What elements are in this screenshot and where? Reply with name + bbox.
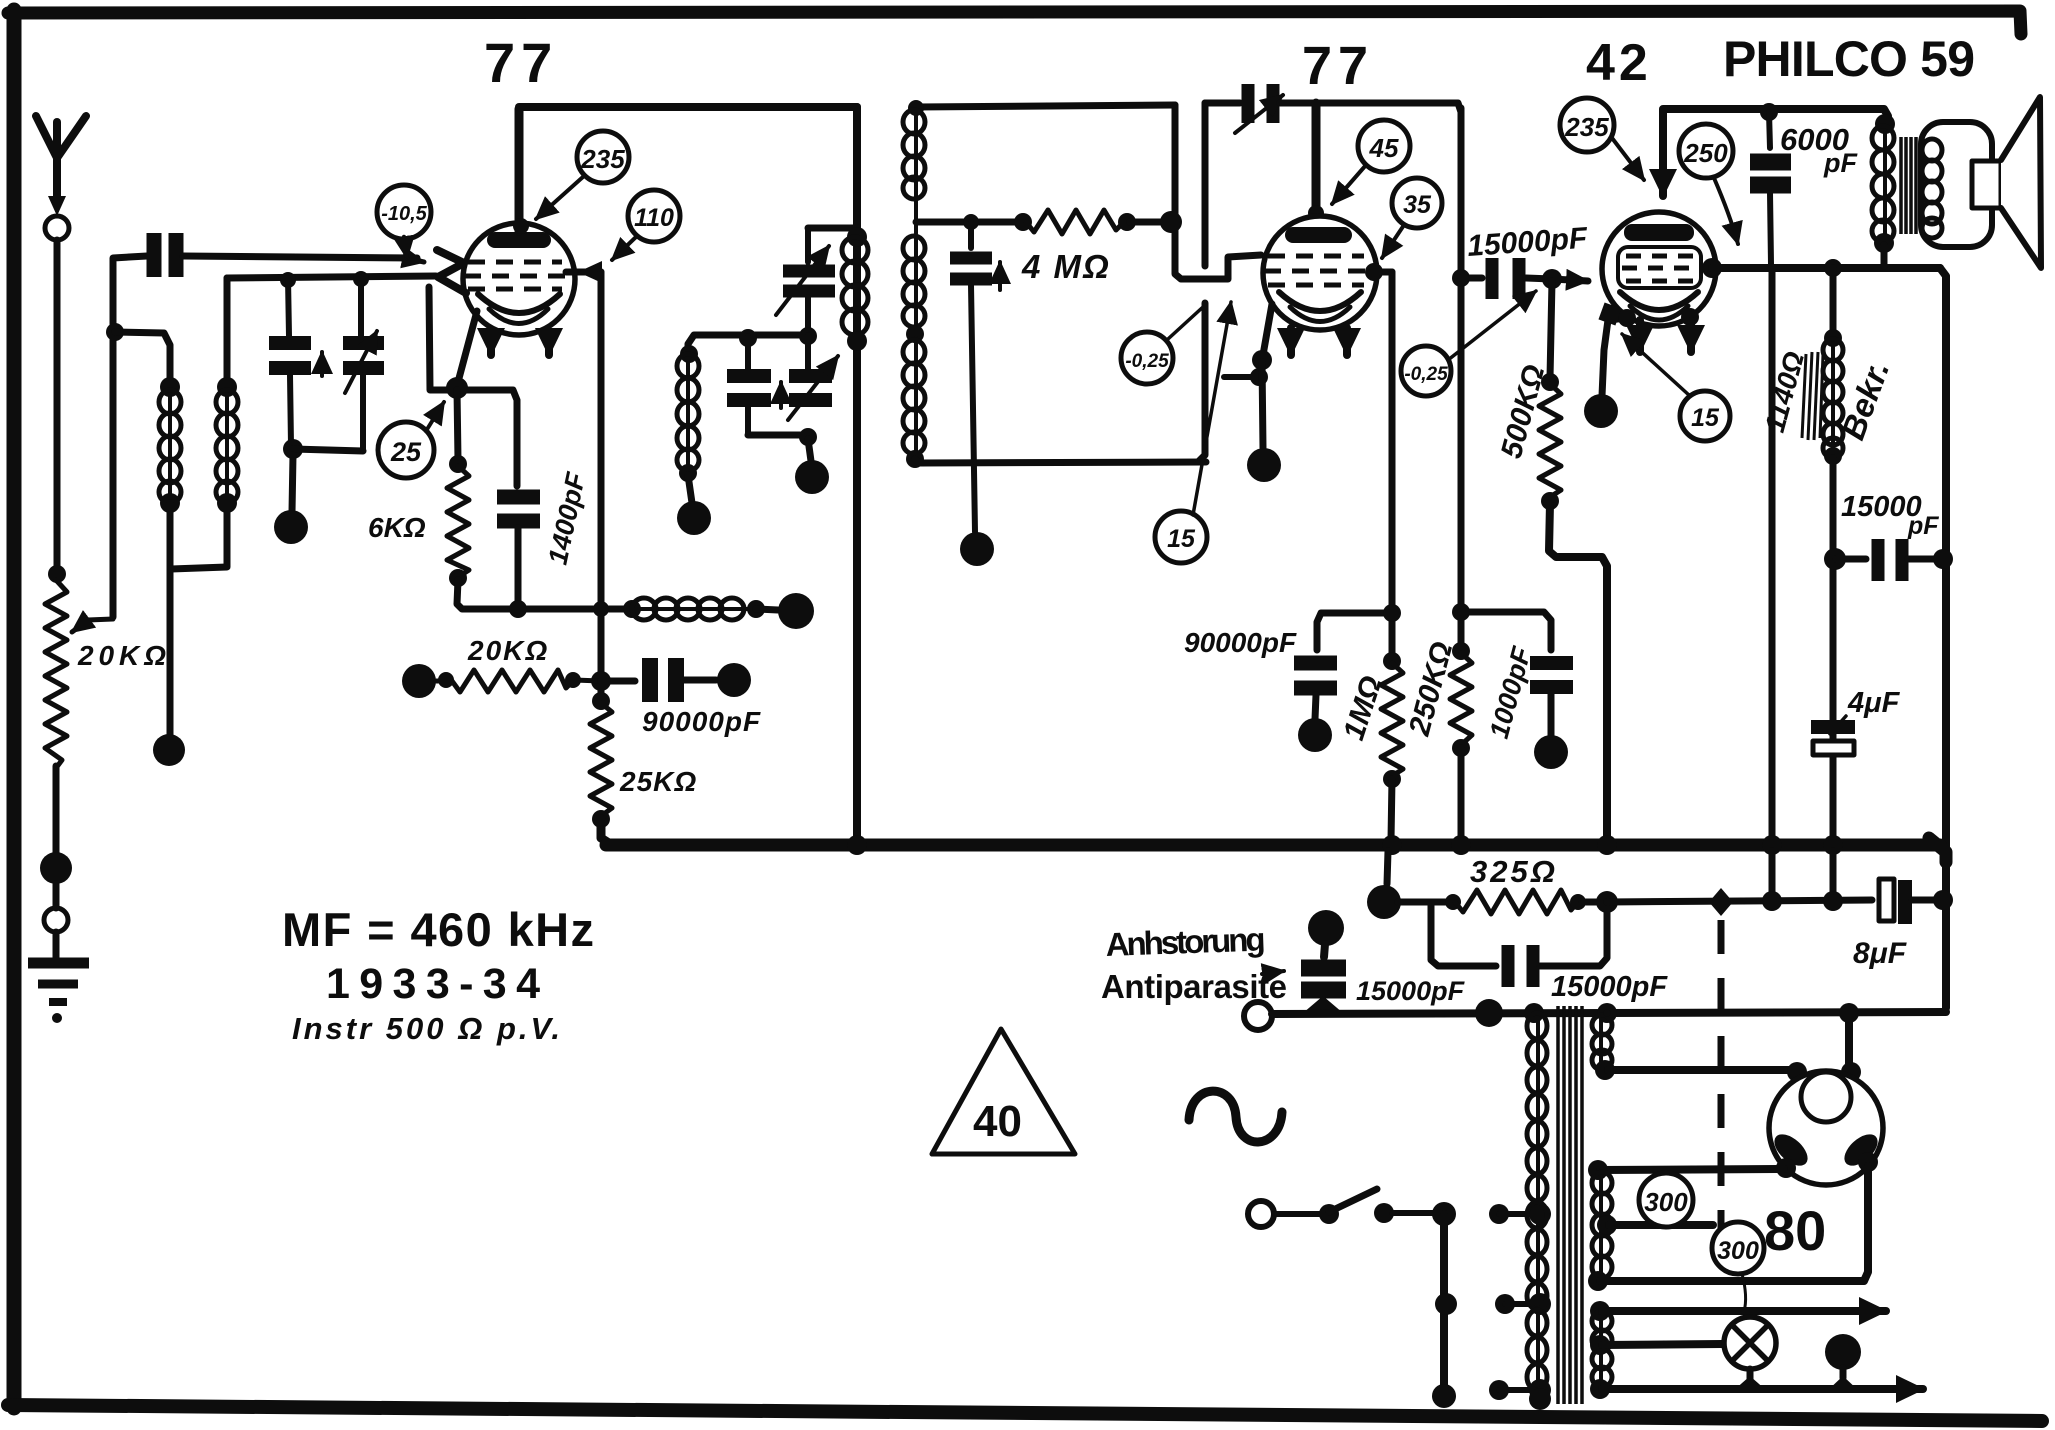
node winding tap mid (1529, 1293, 1551, 1315)
circled 300 first (1639, 1173, 1693, 1227)
capacitor C10 top cap coupling (1248, 84, 1273, 123)
svg-text:4 MΩ: 4 MΩ (1021, 248, 1111, 285)
tube V4 anode right (1839, 1128, 1883, 1171)
wire cathode to blob (1262, 362, 1263, 448)
node C11 left junction (1452, 269, 1470, 287)
wire filament top to tube80 (1600, 1169, 1784, 1170)
bus main B- line (606, 839, 1940, 852)
svg-text:15: 15 (1167, 525, 1196, 553)
wire 4M to grid loop vertical (1130, 219, 1168, 226)
node switch contact (1374, 1203, 1394, 1223)
node tap rail mid (1435, 1293, 1457, 1315)
heater arrow V2 left (1287, 328, 1295, 355)
node R9 right dot (1570, 894, 1586, 910)
tube V3 screen box (1618, 247, 1701, 288)
node junction x1172 (1160, 211, 1182, 233)
AC sine symbol (1189, 1091, 1282, 1142)
wire top cap feed y103 (1205, 100, 1240, 107)
pointer -0,25 to grid loop (1168, 307, 1203, 339)
wire Bekr top stem (1830, 268, 1837, 334)
wire V1 plate lead top (515, 109, 524, 231)
capacitor C18 15000pF (1508, 945, 1533, 987)
node 1M top (1383, 652, 1401, 670)
node C2 bottom junction (283, 439, 303, 459)
wire C6 top stem (805, 228, 811, 262)
capacitor C13 1000pF (1530, 663, 1573, 687)
node blob below C13 (1534, 735, 1568, 769)
wire x1772 rail (250V) (1769, 268, 1776, 840)
wire switch to tap rail (1392, 1210, 1440, 1216)
svg-text:8μF: 8μF (1853, 937, 1907, 970)
wire 20K junction to C5 (601, 678, 635, 685)
wire C7-C8 bottom link (748, 432, 808, 439)
wire vertical x1461 from top (1458, 108, 1465, 648)
tap stub mid (1495, 1294, 1536, 1314)
wire C3 bottom stem (360, 375, 366, 451)
heater arrow V1 right (545, 332, 553, 355)
capacitor C9 IFT2 fixed (950, 258, 992, 279)
inductor L13 HV winding top (1592, 1015, 1612, 1070)
node C19 rail junction (1933, 890, 1953, 910)
circled 25 (378, 422, 434, 478)
tube V3 anode (1624, 224, 1694, 241)
wire 1000pF link y612 (1461, 612, 1551, 650)
wire right rail top corner (1940, 268, 1946, 1008)
node 6K top (449, 455, 467, 473)
node blob below C12 (1298, 718, 1332, 752)
node V2 cathode junction (1252, 350, 1272, 370)
svg-text:-10,5: -10,5 (381, 203, 427, 225)
node winding tap top (1529, 1203, 1551, 1225)
wire pot tap with arrow (72, 619, 113, 632)
border frame top (8, 11, 2021, 34)
node tube80 pin top-right (1841, 1062, 1861, 1082)
heater arrow V2 right (1343, 328, 1351, 355)
svg-text:90000pF: 90000pF (642, 706, 761, 737)
arrow 235 second to plate (1612, 138, 1644, 180)
tube V2 cathode arcs (1279, 292, 1361, 311)
border frame left (7, 10, 22, 1408)
junction diamond on dashed rail (1709, 888, 1733, 916)
svg-text:15: 15 (1691, 404, 1720, 432)
arrow trimmer mark C2 (320, 352, 324, 376)
inductor L15 heater winding (1592, 1311, 1612, 1387)
triangle service mark 40 (932, 1029, 1075, 1154)
node V3 heater pin right (1681, 308, 1699, 326)
node HV winding top (1597, 1003, 1617, 1023)
node blob below L5 (677, 501, 711, 535)
wire stub x1772 to y902 (1769, 851, 1776, 898)
resistor R7 250K (1450, 653, 1472, 745)
wire C3 stem top (358, 277, 364, 336)
tube V1 envelope (463, 223, 575, 335)
node tap rail bottom (1432, 1384, 1456, 1408)
node 4M right dot (1118, 213, 1136, 231)
capacitor C12 90000pF (1294, 663, 1337, 688)
wire grid return y462 (915, 459, 1206, 463)
node blob 325 line left (1367, 885, 1401, 919)
cathode bracket blob mark (1598, 302, 1621, 325)
pointer from 300 second (1742, 1274, 1746, 1312)
arrow trimmer mark C9 (998, 262, 1002, 290)
arrow variable mark C10 (1235, 95, 1283, 133)
node C8 bottom junction (799, 428, 817, 446)
node 25K bottom (592, 810, 610, 828)
node junction on antenna lead (106, 323, 124, 341)
circled -0,25 second (1401, 346, 1451, 396)
tube V3 cathode arcs (1620, 292, 1698, 310)
wire y902 line to 8uF (1607, 900, 1872, 902)
node speaker transformer top (1875, 114, 1895, 134)
arrow -10,5 to grid (404, 237, 407, 258)
capacitor C17 antiparasitic (1301, 968, 1346, 990)
wire heater line mid to lamp (1602, 1344, 1722, 1345)
circled 15 second (1680, 391, 1730, 441)
svg-text:6KΩ: 6KΩ (368, 512, 426, 543)
terminal circle mains line (1244, 1002, 1272, 1030)
capacitor C19 8uF (1879, 879, 1905, 924)
node 20K junction on x601 (591, 671, 611, 691)
wire C9 stem bottom long (971, 285, 975, 532)
wire 25K to bus corner (601, 819, 612, 845)
node R3 right dot (565, 672, 581, 688)
svg-text:15000pF: 15000pF (1356, 976, 1466, 1006)
wire C4 bottom stem (515, 528, 522, 606)
node 1M bottom (1383, 770, 1401, 788)
node 4M left dot (1014, 213, 1032, 231)
resistor R9 325 ohm (1455, 890, 1578, 914)
pilot terminal dot (1825, 1334, 1861, 1391)
wire V1 screen stub right (566, 269, 601, 276)
wire secondary bottom to blob (688, 475, 692, 503)
wire 250K to bus (1458, 748, 1465, 840)
svg-text:25: 25 (390, 437, 422, 467)
svg-text:90000pF: 90000pF (1184, 627, 1297, 658)
circled 45 (1358, 120, 1410, 172)
wire cathode junction left and up to grid X (429, 287, 457, 390)
tube V3 envelope (1602, 212, 1716, 326)
wire C2 stem (288, 278, 289, 336)
wire pot to ground blob (53, 766, 60, 856)
arrow variable mark C3 (345, 331, 377, 393)
inductor L8 IFT2 coil 3 (903, 338, 925, 455)
wire IFT1 top cap link y228 (808, 225, 857, 232)
node 500K top (1541, 373, 1559, 391)
node tube80 pin bottom-right (1858, 1152, 1878, 1172)
node bus junction x1392 (1382, 835, 1402, 855)
heater arrow V1 left (487, 332, 495, 355)
speaker cone (2001, 97, 2041, 268)
circled 15 first (1155, 511, 1207, 563)
node filament winding top (1588, 1160, 1608, 1180)
node IFT2 coil2 bottom (906, 325, 924, 343)
node bus junction x1772 (1762, 835, 1782, 855)
node Bekr coil top (1824, 329, 1842, 347)
resistor R8 500K (1539, 384, 1561, 497)
svg-text:20KΩ: 20KΩ (77, 640, 166, 671)
wire C13 bottom stem (1548, 694, 1555, 736)
wire C12 bottom stem (1315, 695, 1316, 719)
inductor L10 Bekr field coil (1823, 339, 1843, 458)
circled 235 (577, 131, 629, 183)
tube V3 grid dashes (1622, 256, 1736, 281)
arrow 250 to plate line (1714, 178, 1738, 244)
tube V4 anode left (1769, 1128, 1813, 1171)
capacitor C11 15000pF (1492, 258, 1519, 299)
arrow screen stub into tube (580, 270, 594, 275)
node C2 stem junction (280, 272, 296, 288)
wire R9 to junction x1607 (1582, 899, 1607, 906)
capacitor C4 1400pF (497, 497, 540, 521)
wire mains line y1013 (1272, 1012, 1946, 1014)
svg-text:110: 110 (634, 204, 674, 232)
node bus junction x1607 (1597, 835, 1617, 855)
wire stub bus to 325 blob (1387, 851, 1388, 884)
svg-text:20KΩ: 20KΩ (467, 635, 549, 666)
tube V2 envelope (1263, 216, 1377, 330)
wire C5 right lead (684, 677, 716, 684)
inductor L2 coupling coil (216, 390, 238, 503)
arrow 110 to screen node (612, 236, 637, 260)
node switch pivot (1319, 1204, 1339, 1224)
arrow 15 second to cathode (1622, 334, 1690, 396)
capacitor C16 4uF (1811, 727, 1855, 755)
wire V2 screen stub right (1375, 269, 1392, 276)
node bus junction x1461 (1451, 835, 1471, 855)
capacitor C2 tuning fixed (269, 343, 311, 368)
node tap rail top (1432, 1202, 1456, 1226)
node C7 top junction (739, 329, 757, 347)
capacitor C3 variable (343, 343, 384, 368)
node ground blob (40, 852, 72, 884)
node C15 right rail junction (1933, 549, 1953, 569)
wire 6000pF bottom stem (1770, 193, 1771, 264)
wire C10 to V2 plate line y103 (1280, 103, 1461, 112)
inductor L9 output transformer primary (1872, 126, 1894, 242)
svg-text:40: 40 (973, 1097, 1022, 1146)
svg-text:42: 42 (1586, 34, 1652, 92)
label 15000 pF (C15) (1841, 491, 1939, 540)
node 250K junction y612 (1452, 603, 1470, 621)
arrow 15 to cathode bracket (1193, 302, 1231, 515)
circled 110 (628, 190, 680, 242)
capacitor C1 antenna coupling (154, 233, 176, 277)
wire HV mid to tube80 plate left (1608, 1066, 1793, 1074)
node y1013 blob x1489 (1475, 999, 1503, 1027)
node IFT1 secondary bottom (679, 464, 697, 482)
grid cap X mark (437, 250, 466, 293)
resistor R3 20K (436, 670, 601, 692)
node tube80 pin top-left (1787, 1062, 1807, 1082)
dial lamp (1724, 1317, 1776, 1369)
node L1 bottom (160, 493, 180, 513)
svg-text:325Ω: 325Ω (1470, 854, 1558, 889)
wire V3 plate lead with arrow (1659, 112, 1667, 196)
wire junction to coil L1 top (115, 332, 170, 385)
node LV winding mid (1590, 1335, 1610, 1355)
tube V1 cathode arcs (478, 294, 560, 313)
circled 235 second (1560, 98, 1614, 152)
node 6K bottom (449, 569, 467, 587)
wire mid tap to 300 circle (1609, 1221, 1713, 1229)
wire blob to ground (53, 884, 60, 958)
wire C8 junction to blob (808, 439, 811, 461)
node junction C4/screen line (509, 600, 527, 618)
wire 6000pF top stem (1769, 112, 1770, 148)
grid bracket V2 lower (1224, 374, 1258, 380)
wire 6K bottom to screen line (457, 580, 627, 609)
inductor L9b output secondary (1922, 139, 1942, 238)
resistor R6 1M (1381, 663, 1403, 776)
inductor L14 rectifier filament winding (1592, 1172, 1612, 1278)
wire C8 stem top (805, 335, 811, 370)
tap stub bottom (1489, 1380, 1534, 1400)
node HV winding mid (1595, 1060, 1615, 1080)
switch blade (1329, 1189, 1377, 1212)
output transformer core (1901, 137, 1916, 234)
wire 90000pF No2 link (1317, 613, 1390, 650)
node R9 left dot (1445, 894, 1461, 910)
tube V1 anode (487, 232, 551, 248)
dashed rail B+ (1718, 920, 1725, 1235)
svg-text:MF = 460 kHz: MF = 460 kHz (282, 903, 594, 956)
wire IFT2 top line y105 (916, 105, 1175, 107)
wire C18 loop below R9 (1431, 902, 1496, 966)
node y902 x1772 (1762, 891, 1782, 911)
wire 4M line y222 (916, 219, 1023, 226)
node transformer primary top (1524, 1003, 1544, 1023)
node LV winding bottom (1590, 1379, 1610, 1399)
node Bekr coil bottom (1824, 447, 1842, 465)
node 500K bottom (1541, 492, 1559, 510)
wire tap rail vertical (1440, 1214, 1448, 1396)
antenna (36, 116, 86, 240)
node 250K top (1452, 642, 1470, 660)
node 250K bottom (1452, 739, 1470, 757)
wire Bekr bottom down (1830, 458, 1837, 840)
node Bekr top junction (1824, 259, 1842, 277)
tube V2 grid dashes (1264, 256, 1370, 285)
node L1 top (160, 377, 180, 397)
svg-text:235: 235 (1564, 112, 1609, 142)
node L3 right (747, 600, 765, 618)
speaker magnet box (1972, 161, 2001, 208)
wire 1M to bus (1391, 779, 1392, 840)
inductor L4 IFT1 primary (842, 237, 868, 335)
node y1013 x1849 junction (1839, 1003, 1859, 1023)
power transformer core (1558, 1006, 1582, 1404)
svg-text:300: 300 (1644, 1187, 1688, 1217)
svg-text:45: 45 (1369, 133, 1399, 163)
node blob above C17 (1308, 910, 1344, 946)
wire L3 to blob (756, 609, 778, 610)
svg-text:35: 35 (1403, 191, 1432, 219)
circled -0,25 first (1121, 332, 1173, 384)
heater arrow V3 left (1636, 320, 1644, 352)
node blob below C8 (795, 460, 829, 494)
arrow grid wire end (405, 258, 424, 262)
wire 6K top from junction (457, 390, 458, 460)
wire H1 plate line to IFT1 (519, 103, 857, 111)
capacitor C14 6000pF (1750, 162, 1791, 185)
node IFT1 secondary top (680, 345, 698, 363)
border frame bottom (8, 1405, 2042, 1421)
wire cathode junction right to C4 (457, 390, 517, 486)
arrow trimmer mark C7 (779, 382, 783, 408)
wire 500K top stem (1550, 281, 1552, 378)
node V1 plate cap (513, 218, 529, 234)
wire C18 right lead (1540, 908, 1607, 966)
wire y1013 drop to tube80 pin top-right (1845, 1012, 1853, 1068)
svg-text:77: 77 (484, 31, 558, 94)
wire switch left (1275, 1211, 1322, 1217)
wire V2 cathode lead (1263, 304, 1272, 355)
capacitor C6 IFT1 trimmer (783, 271, 835, 291)
resistor R2 6K (447, 466, 469, 577)
node 15000pF right junction (1824, 548, 1846, 570)
svg-text:235: 235 (580, 144, 625, 174)
svg-text:Anhstorung: Anhstorung (1105, 920, 1266, 963)
node y902 x1833 (1823, 891, 1843, 911)
node x1392 90000pF junction (1383, 604, 1401, 622)
wire cathode lead V1 (458, 311, 477, 382)
inductor L3 screen choke (632, 598, 748, 620)
svg-text:77: 77 (1302, 36, 1374, 96)
node tube80 pin bottom-left (1776, 1158, 1796, 1178)
node 6000pF top junction (1760, 103, 1778, 121)
svg-text:PHILCO 59: PHILCO 59 (1723, 31, 1975, 87)
wire grid loop vertical x1175 (1175, 105, 1261, 279)
node IFT1 primary bottom (847, 331, 867, 351)
wire C7 stem bottom (745, 407, 751, 435)
wire heater line 1 with arrow (1602, 1307, 1886, 1315)
wire second RF line corner (224, 278, 231, 383)
node antenna/pot junction (48, 565, 66, 583)
node R3 left dot (438, 672, 454, 688)
wire antenna lead down (54, 240, 61, 578)
wire C15 left lead (1836, 556, 1866, 563)
terminal ring (44, 908, 68, 932)
node V2 screen dot (1365, 263, 1383, 281)
ground (28, 963, 89, 1023)
wire C1 to grid of V1 (183, 256, 417, 258)
node bus right corner (1929, 838, 1946, 862)
wire C15 right lead (1908, 556, 1943, 563)
node blob below C9 (960, 532, 994, 566)
circled -10,5 (377, 185, 431, 239)
switch terminal circle (1248, 1201, 1274, 1227)
node V3 plate right (1702, 258, 1722, 278)
wire grid loop vertical x1205 lower (1199, 303, 1205, 461)
node cathode junction (446, 377, 468, 399)
capacitor C8 IFT1 trimmer 2 (789, 376, 832, 400)
node blob below C2 (274, 510, 308, 544)
svg-text:-0,25: -0,25 (1125, 351, 1169, 372)
Bekr core hatching (1802, 352, 1823, 440)
svg-text:Instr 500 Ω p.V.: Instr 500 Ω p.V. (292, 1011, 560, 1046)
svg-text:4μF: 4μF (1847, 687, 1901, 719)
wire antenna cap left lead (113, 256, 147, 617)
node IFT2 coil3 bottom (906, 450, 924, 468)
wire filament bottom run (1600, 1166, 1868, 1281)
svg-text:250: 250 (1683, 138, 1728, 168)
heater arrow V3 right (1687, 321, 1695, 352)
node C3 stem junction (353, 271, 369, 287)
resistor R5 4M (1026, 210, 1124, 234)
wire IFT1 secondary top link y335 (688, 335, 808, 352)
circled 35 (1392, 178, 1442, 228)
arrow 35 to screen node (1382, 225, 1404, 258)
